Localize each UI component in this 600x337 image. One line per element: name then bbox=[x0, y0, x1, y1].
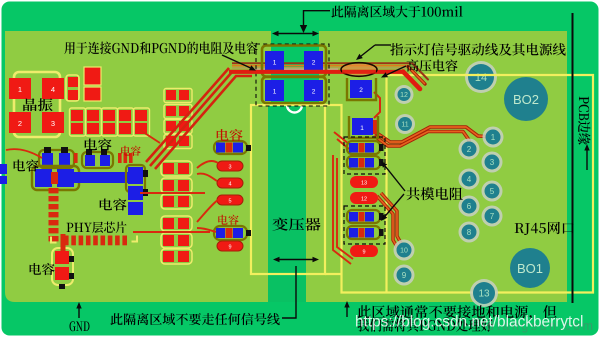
svg-text:2: 2 bbox=[18, 119, 22, 128]
yellow isolation region outline: right PGND region bbox=[325, 75, 593, 293]
annotation arrow high voltage cap bbox=[387, 66, 406, 75]
crystal pad 1 bbox=[9, 78, 31, 99]
PCB edge up arrow bbox=[586, 151, 588, 171]
RC pad 2 at 304,51 bbox=[304, 51, 323, 72]
small connector traces left area bbox=[197, 161, 218, 168]
bottom isolation note line bbox=[282, 266, 296, 318]
RJ45 hole 4 bbox=[459, 169, 480, 190]
high voltage cap pad 2 bbox=[347, 78, 376, 100]
svg-text:BO2: BO2 bbox=[513, 92, 539, 107]
label: cap red 3 bbox=[218, 215, 238, 225]
connector trace HV cap to pad bbox=[374, 92, 380, 118]
cap capsule M2 bbox=[214, 226, 247, 240]
resistor group G1 (3 x 2 pads) bbox=[161, 161, 192, 176]
label: common mode resistor bbox=[407, 187, 463, 200]
svg-text:2: 2 bbox=[312, 60, 316, 67]
bottom right up arrow bbox=[346, 308, 348, 318]
common-mode resistor element y=226 bbox=[347, 226, 380, 239]
label: cap red 2 bbox=[217, 129, 243, 141]
label: PCB edge (vertical) bbox=[578, 97, 591, 145]
capacitor footprint next to crystal bbox=[66, 75, 79, 101]
traces to RJ45 pins 1,2 bbox=[374, 127, 487, 142]
yellow line over hole 14 bbox=[464, 74, 500, 76]
mounting hole BO2 bbox=[504, 77, 548, 121]
annotation: top isolation measure bbox=[304, 11, 331, 26]
yellow isolation region outline: transformer box bbox=[251, 105, 325, 274]
svg-text:9: 9 bbox=[402, 271, 407, 280]
label: LED drive lines bbox=[390, 43, 565, 56]
RJ45 hole 14 bbox=[465, 61, 497, 93]
crystal pad 2 bbox=[9, 112, 31, 133]
decoupling cap C-left1 bbox=[39, 150, 74, 168]
svg-text:14: 14 bbox=[475, 72, 487, 84]
edge component far left bbox=[0, 164, 7, 174]
svg-text:4: 4 bbox=[228, 182, 231, 188]
svg-text:12: 12 bbox=[361, 197, 367, 203]
annotation arrows common mode resistors bbox=[385, 166, 405, 191]
oval pad 3 bbox=[217, 161, 243, 171]
svg-text:9: 9 bbox=[362, 250, 365, 256]
oval pad 12 right column bbox=[350, 192, 378, 204]
channel traces left of RJ45 bbox=[334, 132, 349, 144]
label: crystal bbox=[23, 98, 52, 111]
svg-text:10: 10 bbox=[400, 248, 408, 255]
isolation slot (bright green gap) bbox=[271, 31, 319, 105]
label: cap 1 bbox=[85, 139, 112, 151]
RJ45 hole 5 bbox=[482, 181, 503, 202]
svg-text:BO1: BO1 bbox=[517, 261, 543, 276]
trace bundle diagonal from PHY area bbox=[146, 68, 229, 162]
two pads top bbox=[84, 67, 101, 85]
big cap pads U-left bbox=[32, 166, 79, 190]
svg-text:1: 1 bbox=[273, 60, 277, 67]
label: high-voltage capacitor bbox=[407, 59, 458, 71]
svg-text:11: 11 bbox=[401, 122, 408, 129]
label: RJ45 port bbox=[515, 222, 574, 235]
RC footprint outlines bbox=[262, 46, 326, 77]
svg-text:13: 13 bbox=[478, 289, 490, 300]
RC pad 1 at 265,80 bbox=[265, 80, 284, 101]
transformer isolation strip (teal) bbox=[268, 104, 306, 302]
via dashes in row bbox=[74, 153, 78, 163]
svg-text:3: 3 bbox=[51, 119, 55, 128]
PHY pin column (vertical red dashes) bbox=[49, 188, 59, 193]
RJ45 hole 12 bbox=[395, 85, 414, 104]
label: cap 3 bbox=[100, 199, 127, 211]
ellipse mark on traces bbox=[341, 63, 377, 77]
decoupling cap C-left2 bbox=[82, 152, 113, 168]
common-mode resistor element y=141 bbox=[347, 141, 380, 154]
transformer silkscreen notch bbox=[287, 105, 302, 113]
svg-text:7: 7 bbox=[490, 212, 495, 221]
svg-text:1: 1 bbox=[491, 133, 496, 142]
RJ45 hole 8 bbox=[459, 222, 480, 243]
PHY silkscreen corners bbox=[51, 237, 57, 243]
label: area no gnd/power line1 bbox=[358, 305, 557, 320]
annotation arrow to RC pads bbox=[222, 55, 250, 68]
svg-text:https://blog.csdn.net/blackber: https://blog.csdn.net/blackberrytcl bbox=[355, 314, 583, 331]
main horizontal trace bundle through isolation (thin stripes) bbox=[232, 62, 411, 64]
crystal Y1 silkscreen bbox=[14, 72, 60, 137]
oval pad 4 bbox=[217, 178, 243, 188]
label: GND-PGND RC bbox=[64, 42, 257, 55]
oval pad 5 bbox=[217, 195, 243, 205]
RJ45 hole 11 bbox=[395, 114, 415, 134]
RJ45 hole 13 bbox=[470, 279, 498, 307]
mounting hole BO1 bbox=[510, 248, 550, 288]
resistor group G2 (3 x 2 pads) bbox=[161, 216, 192, 231]
svg-text:5: 5 bbox=[490, 187, 495, 196]
label: GND bbox=[70, 321, 90, 331]
svg-text:4: 4 bbox=[467, 175, 472, 184]
PCB edge black line bbox=[572, 13, 574, 303]
RJ45 hole 6 bbox=[459, 196, 480, 217]
PCB board (light green) bbox=[5, 31, 567, 302]
svg-text:4: 4 bbox=[51, 85, 55, 94]
svg-text:13: 13 bbox=[361, 181, 367, 187]
thick blue trace bbox=[74, 172, 130, 183]
svg-text:3: 3 bbox=[228, 165, 231, 171]
label: PHY chip bbox=[67, 221, 127, 233]
capacitor C-bottom left bbox=[52, 248, 73, 285]
RJ45 hole 3 bbox=[482, 152, 503, 173]
RC pad 1 at 265,51 bbox=[265, 51, 284, 72]
common-mode resistor element y=210 bbox=[347, 210, 380, 223]
RJ45 hole 2 bbox=[459, 139, 480, 160]
svg-text:3: 3 bbox=[490, 158, 495, 167]
svg-text:1: 1 bbox=[18, 85, 22, 94]
svg-text:6: 6 bbox=[467, 202, 472, 211]
label: cap red 1 bbox=[121, 146, 141, 156]
blue pad column right bbox=[126, 165, 145, 192]
RC pad 2 at 304,80 bbox=[304, 80, 323, 101]
label: isolation > 100mil bbox=[331, 6, 462, 18]
crystal pad 4 bbox=[42, 78, 64, 99]
capacitor bank B (2 x 4 red pads) bbox=[164, 89, 192, 103]
cap capsule M1 bbox=[214, 141, 247, 154]
RJ45 hole 10 bbox=[394, 240, 415, 261]
label: cap 4 bbox=[30, 263, 55, 275]
svg-text:8: 8 bbox=[467, 228, 472, 237]
RJ45 hole 7 bbox=[482, 206, 503, 227]
yellow connector transformer box to PGND region bbox=[325, 273, 342, 275]
svg-text:12: 12 bbox=[400, 92, 408, 99]
svg-text:9: 9 bbox=[228, 245, 231, 251]
common-mode resistor dashed boxes bbox=[344, 137, 385, 174]
oval pad 9 right column bbox=[350, 245, 378, 257]
pad 1 bbox=[370, 120, 379, 134]
label: area no gnd/power line2 bbox=[357, 319, 492, 332]
label: transformer bbox=[273, 218, 321, 231]
label: cap 2 bbox=[14, 160, 39, 172]
RJ45 hole 1 bbox=[483, 127, 504, 148]
oval pad 13 right column bbox=[350, 176, 378, 188]
svg-text:2: 2 bbox=[312, 89, 316, 96]
svg-text:2: 2 bbox=[359, 87, 363, 94]
svg-text:5: 5 bbox=[228, 199, 231, 205]
svg-text:1: 1 bbox=[273, 89, 277, 96]
PHY pin row (horizontal red dashes) bbox=[64, 236, 69, 246]
annotation: LED signal line bbox=[375, 44, 391, 46]
traces down to pin 10 bbox=[381, 193, 402, 245]
thick red trace over transformer pads bbox=[229, 70, 405, 74]
svg-text:1: 1 bbox=[360, 125, 364, 132]
label: no signal lines in isolation bbox=[110, 313, 279, 325]
oval pad 9 bbox=[217, 241, 243, 251]
RJ45 hole 9 bbox=[394, 265, 415, 286]
high-voltage cap diagonal bars bbox=[403, 72, 420, 90]
common-mode resistor element y=156 bbox=[347, 156, 380, 169]
capacitor bank A (4 x 2 red pads) bbox=[70, 108, 86, 136]
crystal pad 3 bbox=[42, 112, 64, 133]
svg-text:2: 2 bbox=[467, 145, 472, 154]
GND-PGND RC dashed box bbox=[256, 44, 329, 106]
GND arrow bbox=[78, 309, 80, 319]
